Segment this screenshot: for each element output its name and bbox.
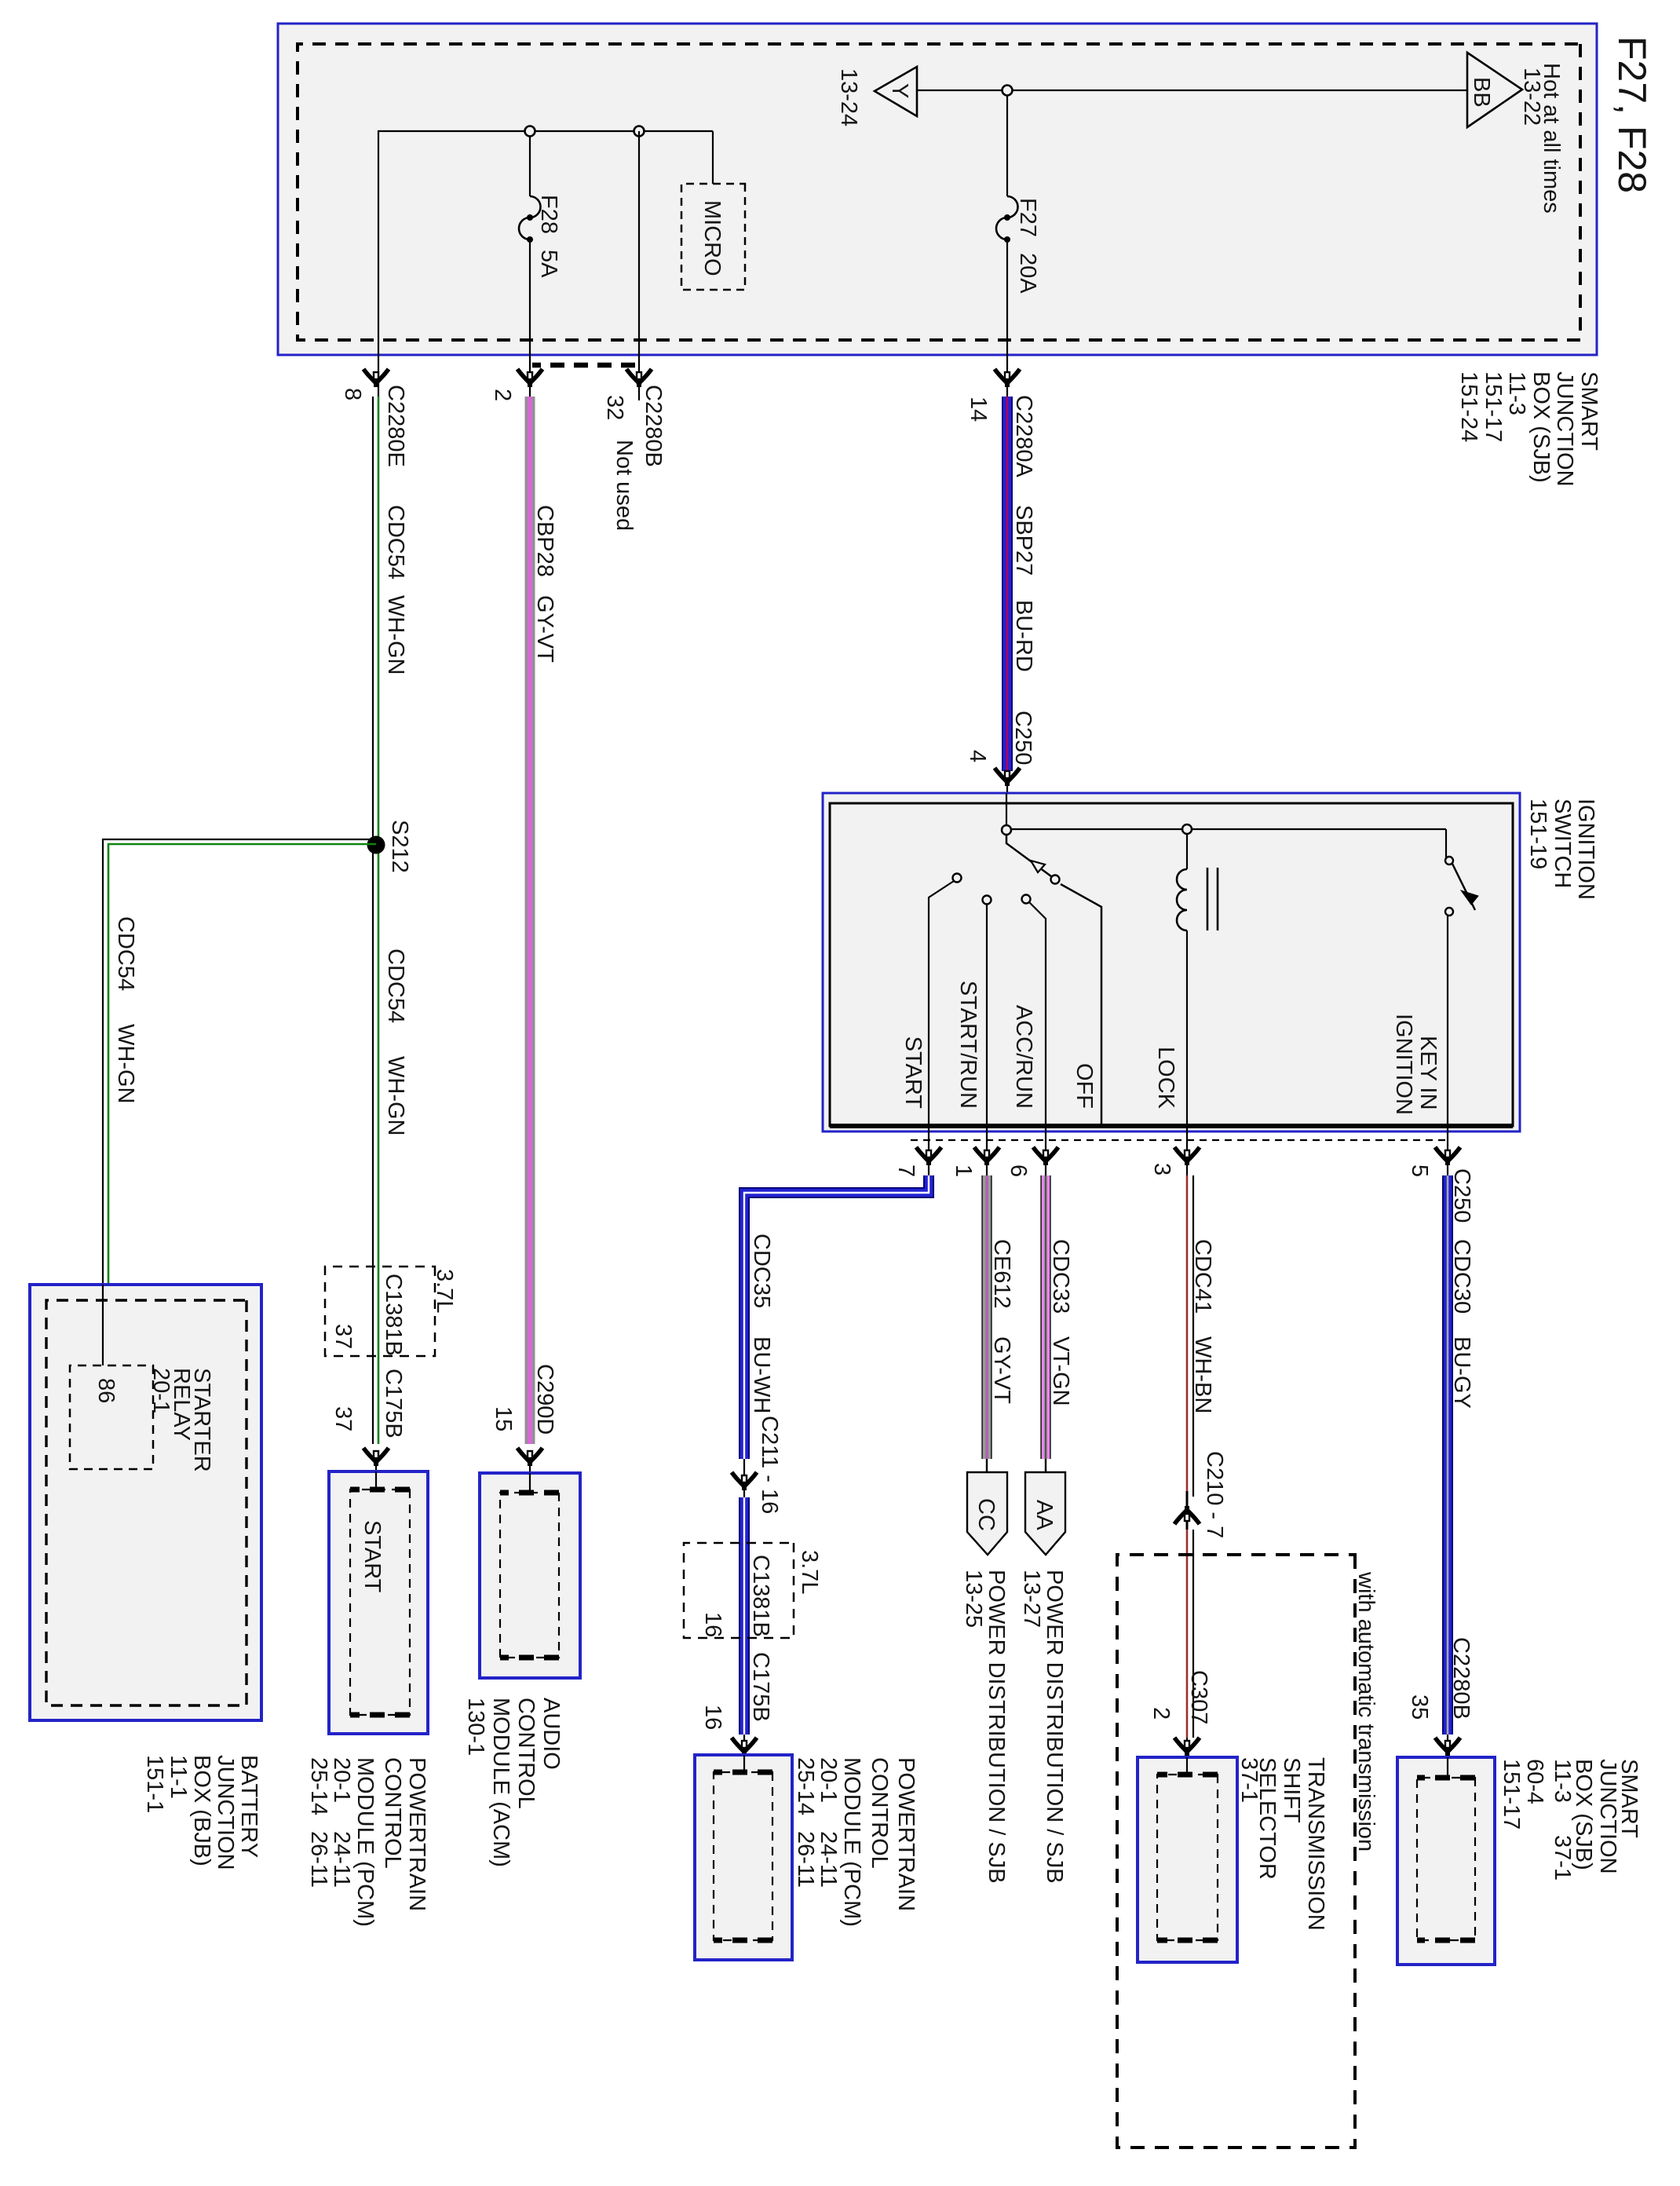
svg-text:CBP28: CBP28 bbox=[532, 505, 557, 577]
wire CDC35 BU-WH (thick blue, white stripe) bbox=[744, 1175, 929, 1459]
svg-text:14: 14 bbox=[966, 397, 991, 422]
svg-text:BU-GY: BU-GY bbox=[1449, 1336, 1474, 1409]
connector arrow out of SJB (F28 pin 2) bbox=[517, 369, 542, 387]
wire S212 branch down to starter relay (black+green pair) bbox=[103, 839, 376, 1365]
svg-text:BU-WH: BU-WH bbox=[749, 1336, 774, 1413]
connector face dashed bbox=[1417, 1778, 1475, 1940]
connector bracket C2280B (dashed tie between pins 2 and 32) bbox=[532, 363, 635, 368]
svg-text:6: 6 bbox=[1006, 1164, 1031, 1177]
svg-text:C250: C250 bbox=[1010, 711, 1035, 765]
wire internal feed bus bbox=[1006, 828, 1446, 830]
svg-text:KEY IN: KEY IN bbox=[1415, 1036, 1441, 1110]
node on F27 bus bbox=[1003, 86, 1013, 96]
inductor key-in chime coil bbox=[1177, 869, 1187, 930]
svg-text:11-3: 11-3 bbox=[1550, 1759, 1575, 1803]
connector arrow into PCM pin 16 bbox=[743, 1735, 745, 1755]
svg-text:START/RUN: START/RUN bbox=[955, 981, 981, 1109]
wire CE612 GY-VT (gray, violet stripe) bbox=[981, 1175, 992, 1459]
svg-text:4: 4 bbox=[965, 750, 990, 762]
wire F27 branch bbox=[1006, 95, 1008, 196]
flag AA bbox=[1025, 1472, 1065, 1555]
svg-text:POWERTRAIN: POWERTRAIN bbox=[893, 1757, 919, 1911]
inner dashed border BJB bbox=[46, 1300, 247, 1705]
svg-text:AUDIO: AUDIO bbox=[539, 1698, 564, 1770]
svg-text:16: 16 bbox=[700, 1612, 725, 1637]
svg-text:26-11: 26-11 bbox=[306, 1831, 331, 1888]
connector arrow pin 1 bbox=[974, 1147, 999, 1165]
svg-text:32: 32 bbox=[602, 395, 627, 420]
svg-text:151-17: 151-17 bbox=[1481, 371, 1506, 442]
connector arrow out of SJB (F27) bbox=[995, 369, 1020, 387]
svg-text:JUNCTION: JUNCTION bbox=[1595, 1759, 1620, 1874]
svg-text:15: 15 bbox=[491, 1406, 516, 1431]
svg-text:CDC30: CDC30 bbox=[1449, 1239, 1474, 1314]
svg-text:C2280B: C2280B bbox=[1448, 1637, 1474, 1720]
flag CC bbox=[967, 1472, 1007, 1555]
svg-text:C307: C307 bbox=[1186, 1670, 1211, 1724]
svg-text:S212: S212 bbox=[387, 820, 412, 873]
svg-text:C2280B: C2280B bbox=[641, 385, 666, 467]
box POWERTRAIN CONTROL MODULE (pin 16) bbox=[695, 1755, 792, 1960]
connector arrow pin 3 bbox=[1174, 1147, 1200, 1165]
svg-text:POWER DISTRIBUTION / SJB: POWER DISTRIBUTION / SJB bbox=[984, 1570, 1009, 1884]
svg-text:F27, F28: F27, F28 bbox=[1610, 36, 1654, 193]
svg-text:26-11: 26-11 bbox=[793, 1831, 818, 1888]
contact START/RUN bbox=[983, 896, 992, 905]
svg-text:7: 7 bbox=[893, 1164, 919, 1177]
box AUDIO CONTROL MODULE bbox=[480, 1473, 580, 1678]
wire stub into TSS bbox=[1186, 1757, 1188, 1775]
svg-text:C1381B: C1381B bbox=[748, 1555, 773, 1637]
contact wiper end bbox=[1051, 875, 1060, 884]
box ignition switch inner (black) bbox=[830, 803, 1513, 1126]
svg-text:IGNITION: IGNITION bbox=[1573, 799, 1598, 900]
svg-text:START: START bbox=[900, 1036, 926, 1109]
svg-text:3.7L: 3.7L bbox=[432, 1269, 457, 1313]
svg-text:20-1: 20-1 bbox=[148, 1368, 173, 1413]
svg-text:151-24: 151-24 bbox=[1456, 371, 1481, 442]
wire START/RUN pin bbox=[986, 905, 988, 1126]
svg-text:BOX (SJB): BOX (SJB) bbox=[1528, 371, 1554, 483]
svg-text:37: 37 bbox=[331, 1406, 356, 1431]
connector 3.7L C1381B (green wire inline) bbox=[325, 1267, 435, 1356]
svg-text:13-22: 13-22 bbox=[1519, 68, 1544, 126]
triangle BB (power feed, points up) bbox=[1467, 53, 1522, 127]
svg-text:WH-GN: WH-GN bbox=[383, 595, 408, 674]
connector arrow out of SJB (pin 32) bbox=[626, 369, 652, 387]
svg-text:CE612: CE612 bbox=[989, 1239, 1014, 1309]
svg-text:AA: AA bbox=[1032, 1500, 1057, 1530]
svg-text:OFF: OFF bbox=[1072, 1063, 1097, 1109]
svg-text:POWERTRAIN: POWERTRAIN bbox=[404, 1757, 429, 1911]
svg-text:IGNITION: IGNITION bbox=[1391, 1014, 1416, 1115]
svg-text:37-1: 37-1 bbox=[1550, 1835, 1575, 1881]
svg-text:WH-GN: WH-GN bbox=[113, 1024, 138, 1103]
wire SBP27 BU-RD (thick blue) bbox=[1002, 397, 1013, 771]
svg-text:C1381B: C1381B bbox=[381, 1274, 406, 1356]
wire OFF position bbox=[1061, 884, 1101, 1126]
svg-text:C175B: C175B bbox=[748, 1652, 773, 1722]
svg-text:SHIFT: SHIFT bbox=[1279, 1757, 1304, 1823]
wire stub into ACM bbox=[529, 1473, 531, 1493]
wire F28 branch bbox=[529, 136, 531, 196]
box with automatic transmission (dashed) bbox=[1117, 1555, 1355, 2148]
box TRANSMISSION SHIFT SELECTOR bbox=[1138, 1757, 1237, 1962]
wire START pin bbox=[929, 881, 954, 1126]
wire CDC30 BU-GY (thick blue, gray stripe) bbox=[1442, 1175, 1453, 1735]
wire from F28 bus to green exit bbox=[378, 131, 379, 397]
svg-text:130-1: 130-1 bbox=[463, 1698, 488, 1756]
svg-text:8: 8 bbox=[340, 388, 365, 400]
svg-text:16: 16 bbox=[700, 1705, 725, 1730]
svg-text:C250: C250 bbox=[1449, 1168, 1474, 1223]
wire CDC54 WH-GN (green + white pair) to S212 bbox=[378, 397, 380, 1444]
svg-text:1: 1 bbox=[951, 1164, 976, 1177]
svg-text:GY-VT: GY-VT bbox=[989, 1336, 1014, 1404]
box SJB outer bbox=[278, 24, 1597, 355]
svg-text:BOX (BJB): BOX (BJB) bbox=[189, 1755, 214, 1866]
svg-text:C2280A: C2280A bbox=[1011, 395, 1036, 477]
connector arrow pin 6 bbox=[1033, 1147, 1058, 1165]
svg-text:5A: 5A bbox=[536, 250, 561, 278]
wire into ignition switch bbox=[1006, 771, 1008, 829]
box terminal 86 (dashed) bbox=[70, 1365, 153, 1469]
connector arrow into ignition switch (pin 4) bbox=[995, 768, 1020, 786]
wire CDC33 VT-GN (violet, green stripe) bbox=[1040, 1175, 1051, 1459]
fuse F28 5A bbox=[519, 196, 541, 239]
svg-text:25-14: 25-14 bbox=[793, 1757, 818, 1815]
wire BU-WH continues bbox=[739, 1497, 750, 1735]
wire bus F28 (vertical inside SJB) bbox=[378, 130, 713, 132]
svg-text:5: 5 bbox=[1407, 1164, 1432, 1177]
connector C211 pin 16 (inline) bbox=[743, 1459, 745, 1497]
svg-text:C290D: C290D bbox=[532, 1364, 557, 1435]
svg-text:F28: F28 bbox=[536, 195, 561, 234]
box MICRO bbox=[681, 184, 745, 290]
svg-text:C175B: C175B bbox=[381, 1369, 406, 1438]
wire F27 to box edge bbox=[1006, 239, 1008, 397]
node F28 bus / fuse tap bbox=[525, 126, 535, 137]
contact START bbox=[953, 874, 962, 883]
connector arrow out of SJB (pin 8) bbox=[363, 369, 389, 387]
wire into starter relay coil bbox=[102, 1285, 104, 1365]
node S212 bbox=[367, 836, 385, 854]
svg-text:C211 - 16: C211 - 16 bbox=[757, 1416, 782, 1514]
svg-text:F27: F27 bbox=[1015, 198, 1040, 237]
svg-text:MODULE (PCM): MODULE (PCM) bbox=[352, 1757, 378, 1927]
svg-text:MODULE (PCM): MODULE (PCM) bbox=[839, 1757, 864, 1927]
box SJB inner dashed border bbox=[298, 44, 1580, 340]
svg-text:JUNCTION: JUNCTION bbox=[1552, 371, 1577, 487]
connector arrow into PCM (START) bbox=[363, 1448, 389, 1466]
connector face dashed bbox=[500, 1493, 559, 1658]
svg-text:35: 35 bbox=[1407, 1694, 1432, 1720]
svg-text:20-1: 20-1 bbox=[329, 1757, 354, 1803]
svg-text:with automatic transmission: with automatic transmission bbox=[1353, 1571, 1379, 1852]
svg-text:CDC54: CDC54 bbox=[383, 949, 408, 1023]
svg-text:JUNCTION: JUNCTION bbox=[213, 1755, 238, 1870]
connector face C250 (thick edge) bbox=[830, 1124, 1513, 1128]
svg-text:MODULE (ACM): MODULE (ACM) bbox=[488, 1698, 513, 1867]
wire pin 32 not used bbox=[638, 131, 640, 400]
svg-text:START: START bbox=[360, 1520, 385, 1593]
svg-text:24-11: 24-11 bbox=[816, 1831, 841, 1888]
switch wiper (rotary) bbox=[1006, 835, 1054, 879]
svg-text:SBP27: SBP27 bbox=[1011, 505, 1036, 576]
node F28 bus / C2280B pin32 tap bbox=[634, 126, 645, 137]
wire stub into PCM START bbox=[375, 1471, 377, 1490]
contact ACC/RUN bbox=[1022, 895, 1031, 904]
svg-text:2: 2 bbox=[490, 389, 515, 401]
svg-text:Not used: Not used bbox=[612, 440, 637, 531]
svg-text:CC: CC bbox=[973, 1498, 999, 1531]
svg-text:C2280E: C2280E bbox=[383, 385, 408, 467]
svg-text:3.7L: 3.7L bbox=[797, 1550, 822, 1594]
svg-text:C210 - 7: C210 - 7 bbox=[1202, 1451, 1227, 1538]
svg-text:POWER DISTRIBUTION / SJB: POWER DISTRIBUTION / SJB bbox=[1042, 1570, 1067, 1884]
svg-text:BB: BB bbox=[1469, 77, 1494, 108]
svg-text:CDC41: CDC41 bbox=[1190, 1239, 1215, 1314]
wire bus F27 (vertical feed line) bbox=[917, 90, 1467, 91]
svg-text:VT-GN: VT-GN bbox=[1048, 1336, 1073, 1406]
box BATTERY JUNCTION BOX w/ STARTER RELAY bbox=[30, 1285, 261, 1720]
svg-text:37-1: 37-1 bbox=[1236, 1757, 1262, 1803]
svg-text:GY-VT: GY-VT bbox=[532, 595, 557, 663]
svg-text:ACC/RUN: ACC/RUN bbox=[1011, 1005, 1036, 1109]
svg-text:CDC33: CDC33 bbox=[1048, 1239, 1073, 1314]
svg-text:SMART: SMART bbox=[1576, 371, 1601, 451]
connector C210 pin 7 (inline, arrow faces back) bbox=[1186, 1491, 1189, 1530]
svg-text:37: 37 bbox=[331, 1324, 356, 1349]
svg-text:WH-GN: WH-GN bbox=[383, 1056, 408, 1135]
wire CDC41 WH-BN (brown + white pair) bbox=[1186, 1175, 1189, 1491]
svg-text:151-17: 151-17 bbox=[1499, 1759, 1524, 1830]
box POWERTRAIN CONTROL MODULE (START) bbox=[329, 1471, 428, 1734]
svg-text:60-4: 60-4 bbox=[1522, 1759, 1547, 1804]
svg-text:CONTROL: CONTROL bbox=[867, 1757, 892, 1869]
wire stub into PCM bbox=[743, 1755, 745, 1772]
svg-text:CDC54: CDC54 bbox=[383, 505, 408, 579]
svg-text:13-27: 13-27 bbox=[1019, 1570, 1044, 1628]
wire F28 to box edge bbox=[529, 239, 531, 397]
svg-text:86: 86 bbox=[93, 1378, 119, 1403]
connector arrow pin 5 bbox=[1435, 1147, 1460, 1165]
svg-text:TRANSMISSION: TRANSMISSION bbox=[1303, 1757, 1328, 1931]
svg-text:BU-RD: BU-RD bbox=[1011, 600, 1036, 672]
box ignition switch outer (blue) bbox=[823, 793, 1520, 1131]
connector arrow into SJB bbox=[1447, 1735, 1448, 1757]
svg-text:151-19: 151-19 bbox=[1525, 799, 1550, 869]
wire WH-BN continues bbox=[1186, 1530, 1189, 1738]
connector arrow into ACM bbox=[517, 1448, 542, 1466]
svg-text:20-1: 20-1 bbox=[816, 1757, 841, 1803]
svg-text:WH-BN: WH-BN bbox=[1190, 1336, 1215, 1413]
svg-text:SWITCH: SWITCH bbox=[1550, 799, 1575, 888]
svg-text:24-11: 24-11 bbox=[329, 1831, 354, 1888]
wire CBP28 GY-VT (violet w/ gray edge) bbox=[525, 397, 535, 1444]
box SMART JUNCTION BOX (pin 35) bbox=[1397, 1757, 1495, 1965]
fuse F27 20A bbox=[996, 196, 1018, 239]
svg-text:MICRO: MICRO bbox=[699, 200, 725, 276]
svg-text:3: 3 bbox=[1149, 1163, 1174, 1175]
wire LOCK pin with chime coil bbox=[1186, 834, 1188, 869]
svg-text:13-24: 13-24 bbox=[836, 68, 861, 126]
svg-text:151-1: 151-1 bbox=[142, 1755, 167, 1813]
node LOCK tap bbox=[1182, 824, 1192, 834]
wire entry to node bbox=[1006, 793, 1007, 829]
svg-text:25-14: 25-14 bbox=[306, 1757, 331, 1815]
connector C250 dashed line bbox=[908, 1139, 1445, 1141]
svg-text:11-1: 11-1 bbox=[166, 1755, 191, 1799]
connector arrow into shift selector bbox=[1186, 1738, 1188, 1757]
svg-text:2: 2 bbox=[1149, 1707, 1174, 1720]
wire stub into SJB2 bbox=[1447, 1757, 1448, 1778]
switch KEY IN IGNITION bbox=[1445, 829, 1447, 858]
svg-text:CONTROL: CONTROL bbox=[513, 1698, 539, 1809]
svg-text:Y: Y bbox=[887, 83, 912, 98]
connector arrow pin 7 bbox=[916, 1147, 941, 1165]
node wiper pivot bbox=[1002, 825, 1011, 835]
svg-text:BATTERY: BATTERY bbox=[236, 1755, 261, 1858]
connector face dashed bbox=[350, 1490, 410, 1715]
connector face dashed bbox=[714, 1772, 772, 1940]
svg-text:13-25: 13-25 bbox=[961, 1570, 986, 1628]
wire ACC/RUN pin bbox=[1029, 902, 1046, 1126]
connector 3.7L C1381B (blue wire inline) bbox=[684, 1543, 794, 1638]
svg-text:CONTROL: CONTROL bbox=[380, 1757, 405, 1869]
triangle Y (feed continues, points down) bbox=[875, 67, 917, 116]
svg-text:CDC35: CDC35 bbox=[749, 1234, 774, 1308]
svg-text:20A: 20A bbox=[1015, 253, 1040, 294]
wire elbow to MICRO bbox=[712, 131, 714, 184]
connector face dashed bbox=[1157, 1775, 1218, 1940]
svg-text:CDC54: CDC54 bbox=[113, 916, 138, 991]
svg-text:11-3: 11-3 bbox=[1504, 371, 1529, 415]
svg-text:LOCK: LOCK bbox=[1153, 1047, 1178, 1109]
